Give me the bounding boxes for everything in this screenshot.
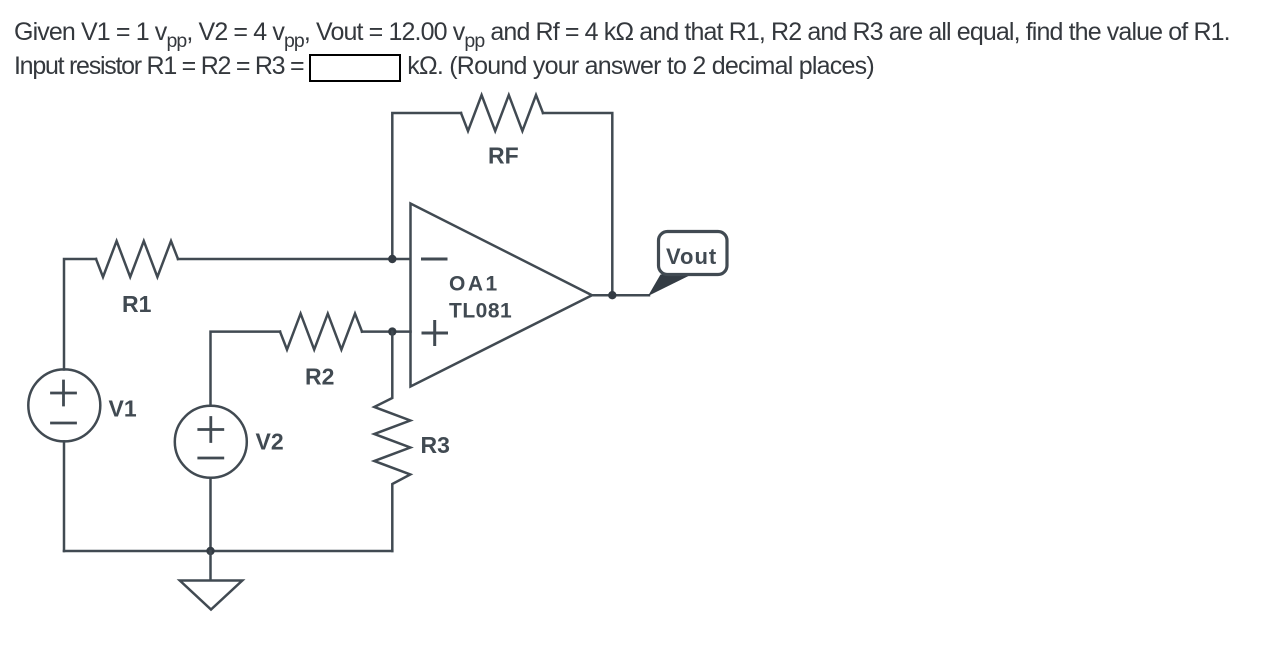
node output dot: [608, 291, 616, 299]
node ground dot: [206, 547, 214, 555]
svg-text:R2: R2: [305, 363, 334, 389]
resistor R1: [96, 241, 178, 277]
node inverting input dot: [388, 255, 396, 263]
V1 plus sign: [52, 381, 76, 405]
op-amp plus symbol: [423, 322, 447, 345]
Vout callout box: [659, 232, 728, 275]
svg-text:V1: V1: [109, 396, 137, 422]
wire V1 bottom: [63, 441, 66, 551]
ground symbol: [180, 581, 243, 610]
op-amp minus symbol: [423, 258, 447, 261]
resistor R2: [280, 314, 362, 350]
wire V2 bottom: [209, 478, 212, 551]
source V1 circle: [28, 369, 100, 441]
V1 minus sign: [52, 422, 76, 425]
svg-text:V2: V2: [256, 429, 284, 455]
wire R2 to noninverting node: [362, 330, 411, 333]
resistor R3 vertical: [374, 332, 410, 551]
svg-text:Vout: Vout: [666, 244, 717, 269]
node noninverting input dot: [388, 327, 396, 335]
V2 minus sign: [199, 457, 223, 460]
svg-text:R3: R3: [421, 432, 450, 458]
svg-text:OA1: OA1: [449, 273, 500, 296]
wire R1 to inverting node: [178, 258, 411, 261]
source V2 circle: [175, 406, 247, 478]
wire output: [592, 294, 649, 297]
ground stem: [209, 551, 212, 581]
wire RF right + right vertical down to output: [543, 113, 612, 295]
op-amp U1 triangle: [411, 204, 593, 387]
wire RF left vertical: [392, 113, 461, 259]
wire R2 branch: [211, 332, 281, 406]
Vout callout tail: [648, 275, 692, 297]
svg-text:RF: RF: [488, 142, 519, 168]
svg-text:TL081: TL081: [449, 300, 512, 323]
V2 plus sign: [199, 418, 223, 442]
wire bottom rail: [64, 550, 392, 553]
svg-text:R1: R1: [122, 291, 152, 317]
wire R1 branch left vertical: [64, 259, 96, 370]
resistor RF: [461, 95, 543, 131]
